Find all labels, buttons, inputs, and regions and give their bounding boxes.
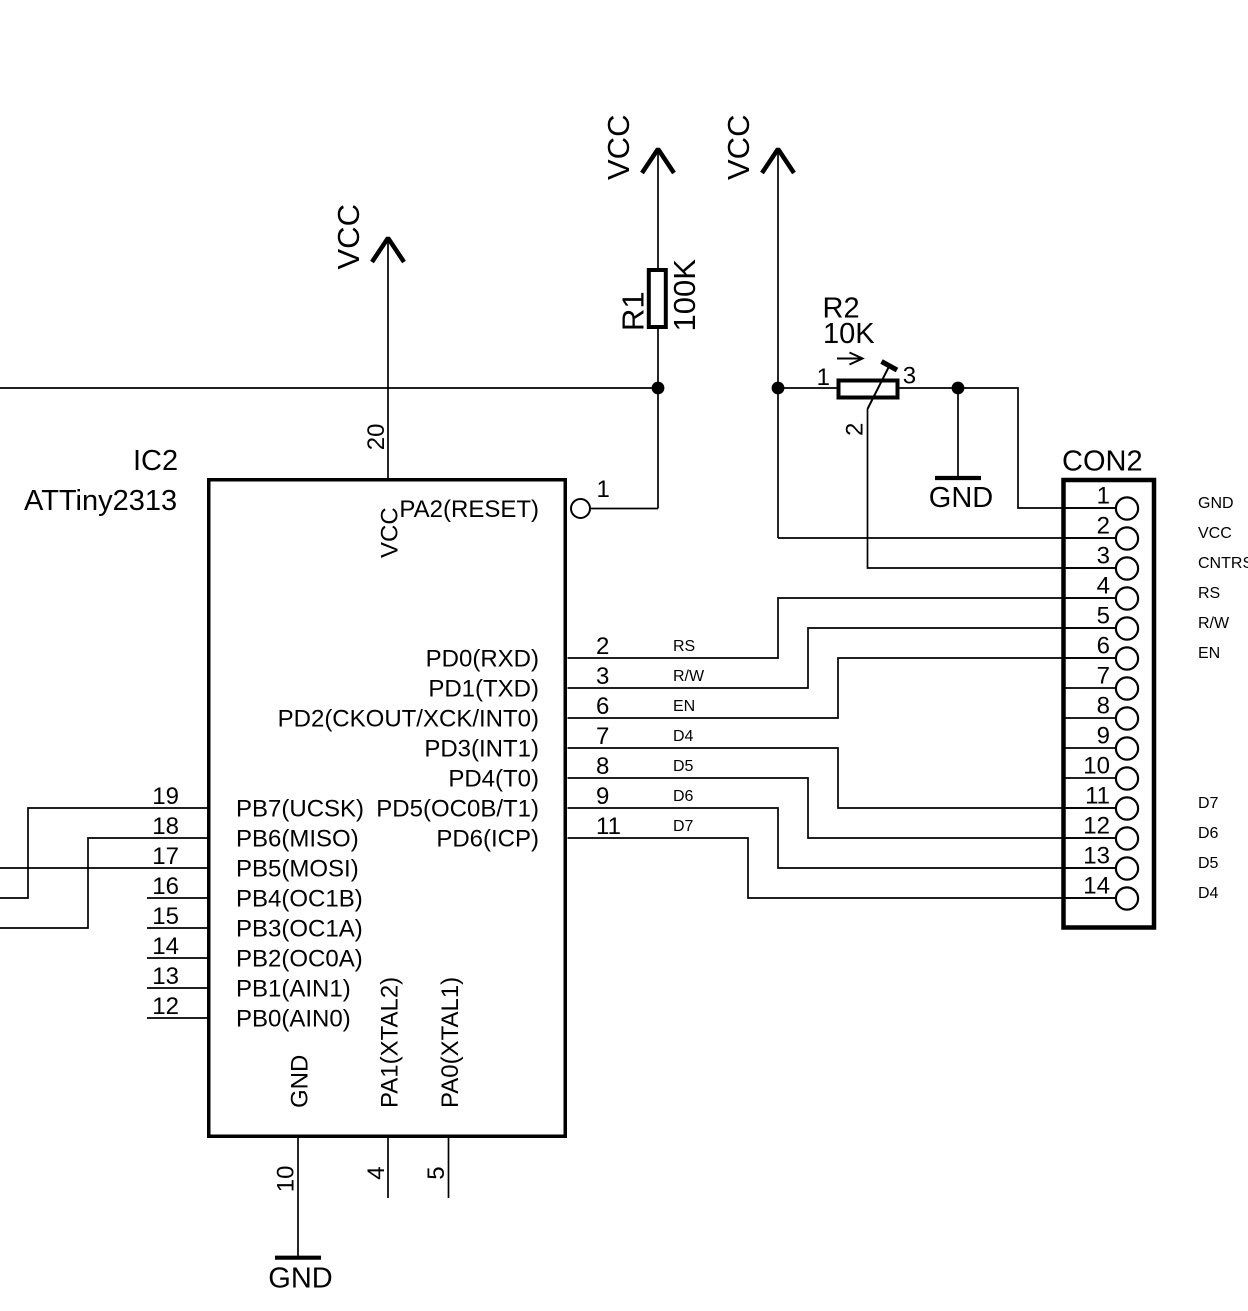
svg-text:D6: D6 (673, 788, 694, 805)
svg-text:D4: D4 (1198, 885, 1219, 902)
pin 5 PA0(XTAL1) (423, 977, 464, 1198)
svg-text:6: 6 (1097, 633, 1110, 660)
svg-text:PD5(OC0B/T1): PD5(OC0B/T1) (376, 796, 539, 823)
svg-text:9: 9 (596, 783, 609, 810)
pin 12 PB0(AIN0) (147, 993, 351, 1033)
svg-text:PB5(MOSI): PB5(MOSI) (236, 856, 359, 883)
svg-text:9: 9 (1097, 723, 1110, 750)
CON2 pin 7 (1065, 663, 1138, 700)
svg-text:7: 7 (1097, 663, 1110, 690)
svg-text:EN: EN (1198, 645, 1220, 662)
svg-text:GND: GND (929, 482, 993, 514)
svg-text:2: 2 (1097, 513, 1110, 540)
resistor R1 100K (616, 259, 703, 388)
svg-text:10: 10 (273, 1166, 300, 1193)
svg-text:PD1(TXD): PD1(TXD) (428, 676, 539, 703)
svg-text:PD6(ICP): PD6(ICP) (436, 826, 539, 853)
svg-text:PD4(T0): PD4(T0) (448, 766, 539, 793)
pin 20 VCC (top) (363, 423, 404, 558)
svg-text:PA1(XTAL2): PA1(XTAL2) (377, 977, 404, 1108)
CON2 pin 13 (1065, 843, 1219, 880)
CON2 pin 12 (1065, 813, 1219, 850)
CON2 pin 4 (1065, 573, 1220, 610)
svg-text:4: 4 (363, 1166, 390, 1179)
svg-text:RS: RS (673, 638, 695, 655)
svg-text:8: 8 (1097, 693, 1110, 720)
CON2 pin 3 (1065, 543, 1248, 580)
CON2 pin 9 (1065, 723, 1138, 760)
svg-text:D6: D6 (1198, 825, 1219, 842)
svg-text:VCC: VCC (721, 115, 756, 180)
power VCC (R2 net) (721, 115, 794, 538)
svg-text:IC2: IC2 (133, 445, 178, 477)
svg-text:PB4(OC1B): PB4(OC1B) (236, 886, 363, 913)
CON2 pin 8 (1065, 693, 1138, 730)
IC U: IC2 ATTiny2313 box (209, 480, 566, 1137)
svg-text:11: 11 (596, 813, 621, 840)
pin 17 PB5(MOSI) (0, 843, 359, 883)
svg-text:PD0(RXD): PD0(RXD) (426, 646, 539, 673)
wire (0, 387, 658, 389)
pin 7 PD3(INT1) wire to CON2 (D4) (424, 723, 1115, 808)
wire (GND net to CON2 pin 1) (958, 388, 1115, 508)
svg-text:PB2(OC0A): PB2(OC0A) (236, 946, 363, 973)
pin 6 PD2(CKOUT/XCK/INT0) wire to CON2 (EN) (278, 658, 1115, 733)
CON2 pin 11 (1065, 783, 1219, 820)
svg-text:R/W: R/W (1198, 615, 1230, 632)
pin 4 PA1(XTAL2) (363, 977, 404, 1198)
svg-text:3: 3 (596, 663, 609, 690)
svg-text:18: 18 (152, 813, 179, 840)
wire (R2 wiper to CON2 pin 3, CNTRST) (868, 409, 1116, 568)
svg-text:20: 20 (363, 423, 390, 450)
svg-text:7: 7 (596, 723, 609, 750)
svg-text:D4: D4 (673, 728, 694, 745)
svg-text:19: 19 (152, 783, 179, 810)
svg-text:GND: GND (1198, 495, 1234, 512)
svg-text:10K: 10K (823, 318, 875, 350)
svg-text:6: 6 (596, 693, 609, 720)
svg-text:13: 13 (152, 963, 179, 990)
pin 3 PD1(TXD) wire to CON2 (R/W) (428, 628, 1115, 703)
wire (VCC net to CON2 pin 2) (778, 537, 1115, 539)
svg-text:16: 16 (152, 873, 179, 900)
svg-text:13: 13 (1083, 843, 1110, 870)
svg-text:17: 17 (152, 843, 179, 870)
svg-text:R1: R1 (616, 291, 651, 331)
svg-text:4: 4 (1097, 573, 1110, 600)
CON2 pin 1 (1065, 483, 1234, 520)
svg-text:1: 1 (597, 476, 610, 503)
pin 10 GND (bottom) (273, 1055, 314, 1256)
svg-text:VCC: VCC (601, 115, 636, 180)
connector CON2 box (1064, 480, 1155, 928)
svg-text:15: 15 (152, 903, 179, 930)
svg-text:PB1(AIN1): PB1(AIN1) (236, 976, 351, 1003)
svg-text:3: 3 (903, 363, 916, 390)
svg-text:5: 5 (1097, 603, 1110, 630)
svg-text:8: 8 (596, 753, 609, 780)
svg-text:R/W: R/W (673, 668, 705, 685)
svg-text:100K: 100K (667, 259, 702, 332)
potentiometer R2 10K (778, 293, 958, 436)
svg-text:VCC: VCC (1198, 525, 1232, 542)
pin 13 PB1(AIN1) (147, 963, 351, 1003)
svg-text:5: 5 (423, 1166, 450, 1179)
pin 15 PB3(OC1A) (147, 903, 363, 943)
svg-text:14: 14 (1083, 873, 1110, 900)
svg-text:12: 12 (1083, 813, 1110, 840)
svg-text:CON2: CON2 (1062, 446, 1143, 478)
pin 19 PB7(UCSK) (0, 783, 364, 898)
svg-text:D7: D7 (1198, 795, 1219, 812)
pin 8 PD4(T0) wire to CON2 (D5) (448, 753, 1115, 838)
svg-text:PB6(MISO): PB6(MISO) (236, 826, 359, 853)
pin 11 PD6(ICP) wire to CON2 (D7) (436, 813, 1115, 898)
junction (R1 / reset net) (652, 382, 665, 395)
CON2 pin 14 (1065, 873, 1219, 910)
pin 1 PA2(RESET) (399, 388, 658, 523)
CON2 pin 5 (1065, 603, 1230, 640)
svg-text:ATTiny2313: ATTiny2313 (24, 485, 177, 517)
svg-text:GND: GND (287, 1055, 314, 1108)
svg-text:GND: GND (268, 1263, 332, 1295)
power VCC (pin 20 net) (331, 204, 404, 478)
svg-text:PD2(CKOUT/XCK/INT0): PD2(CKOUT/XCK/INT0) (278, 706, 539, 733)
svg-text:PA0(XTAL1): PA0(XTAL1) (437, 977, 464, 1108)
svg-text:PD3(INT1): PD3(INT1) (424, 736, 539, 763)
pin 16 PB4(OC1B) (147, 873, 363, 913)
svg-text:PB3(OC1A): PB3(OC1A) (236, 916, 363, 943)
ground GND (R2 wiper net) (929, 388, 993, 514)
power VCC (R1 top) (601, 115, 674, 269)
svg-text:3: 3 (1097, 543, 1110, 570)
pin 14 PB2(OC0A) (147, 933, 363, 973)
svg-text:VCC: VCC (377, 507, 404, 558)
CON2 pin 10 (1065, 753, 1138, 790)
svg-text:14: 14 (152, 933, 179, 960)
svg-text:2: 2 (596, 633, 609, 660)
junction (R2 pin 3 / GND) (952, 382, 965, 395)
svg-text:D5: D5 (673, 758, 694, 775)
svg-text:10: 10 (1083, 753, 1110, 780)
svg-text:D7: D7 (673, 818, 694, 835)
junction (VCC / R2 pin 1) (772, 382, 785, 395)
svg-text:VCC: VCC (331, 204, 366, 269)
svg-text:CNTRST: CNTRST (1198, 555, 1248, 572)
CON2 pin 2 (1065, 513, 1232, 550)
pin 2 PD0(RXD) wire to CON2 (RS) (426, 598, 1115, 673)
svg-text:RS: RS (1198, 585, 1220, 602)
svg-text:PB7(UCSK): PB7(UCSK) (236, 796, 364, 823)
svg-text:1: 1 (817, 364, 830, 391)
svg-text:2: 2 (841, 423, 868, 436)
CON2 pin 6 (1065, 633, 1220, 670)
pin 18 PB6(MISO) (0, 813, 359, 928)
svg-text:D5: D5 (1198, 855, 1219, 872)
svg-text:11: 11 (1085, 783, 1110, 810)
svg-text:PB0(AIN0): PB0(AIN0) (236, 1006, 351, 1033)
svg-text:1: 1 (1097, 483, 1110, 510)
svg-text:12: 12 (152, 993, 179, 1020)
svg-text:EN: EN (673, 698, 695, 715)
pin 9 PD5(OC0B/T1) wire to CON2 (D6) (376, 783, 1115, 868)
ground GND (IC) (268, 1258, 332, 1295)
svg-text:PA2(RESET): PA2(RESET) (399, 496, 539, 523)
